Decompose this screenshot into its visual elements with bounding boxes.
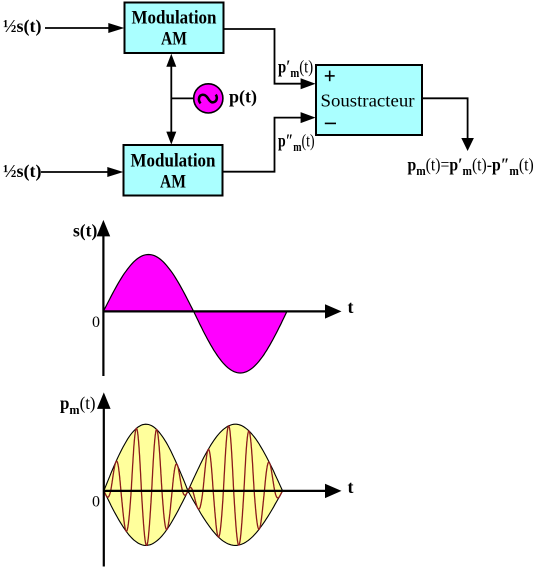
svg-text:t: t bbox=[348, 477, 354, 497]
svg-text:s(t): s(t) bbox=[73, 221, 97, 241]
svg-text:AM: AM bbox=[160, 173, 186, 193]
svg-text:½s(t): ½s(t) bbox=[3, 16, 42, 37]
svg-text:0: 0 bbox=[92, 494, 100, 511]
svg-text:0: 0 bbox=[92, 314, 100, 331]
svg-text:Modulation: Modulation bbox=[132, 9, 218, 29]
svg-text:Modulation: Modulation bbox=[131, 152, 217, 172]
svg-text:Soustracteur: Soustracteur bbox=[321, 91, 415, 111]
svg-text:AM: AM bbox=[161, 30, 187, 50]
svg-text:½s(t): ½s(t) bbox=[3, 161, 42, 182]
svg-text:t: t bbox=[348, 297, 354, 317]
svg-text:p(t): p(t) bbox=[229, 86, 257, 107]
